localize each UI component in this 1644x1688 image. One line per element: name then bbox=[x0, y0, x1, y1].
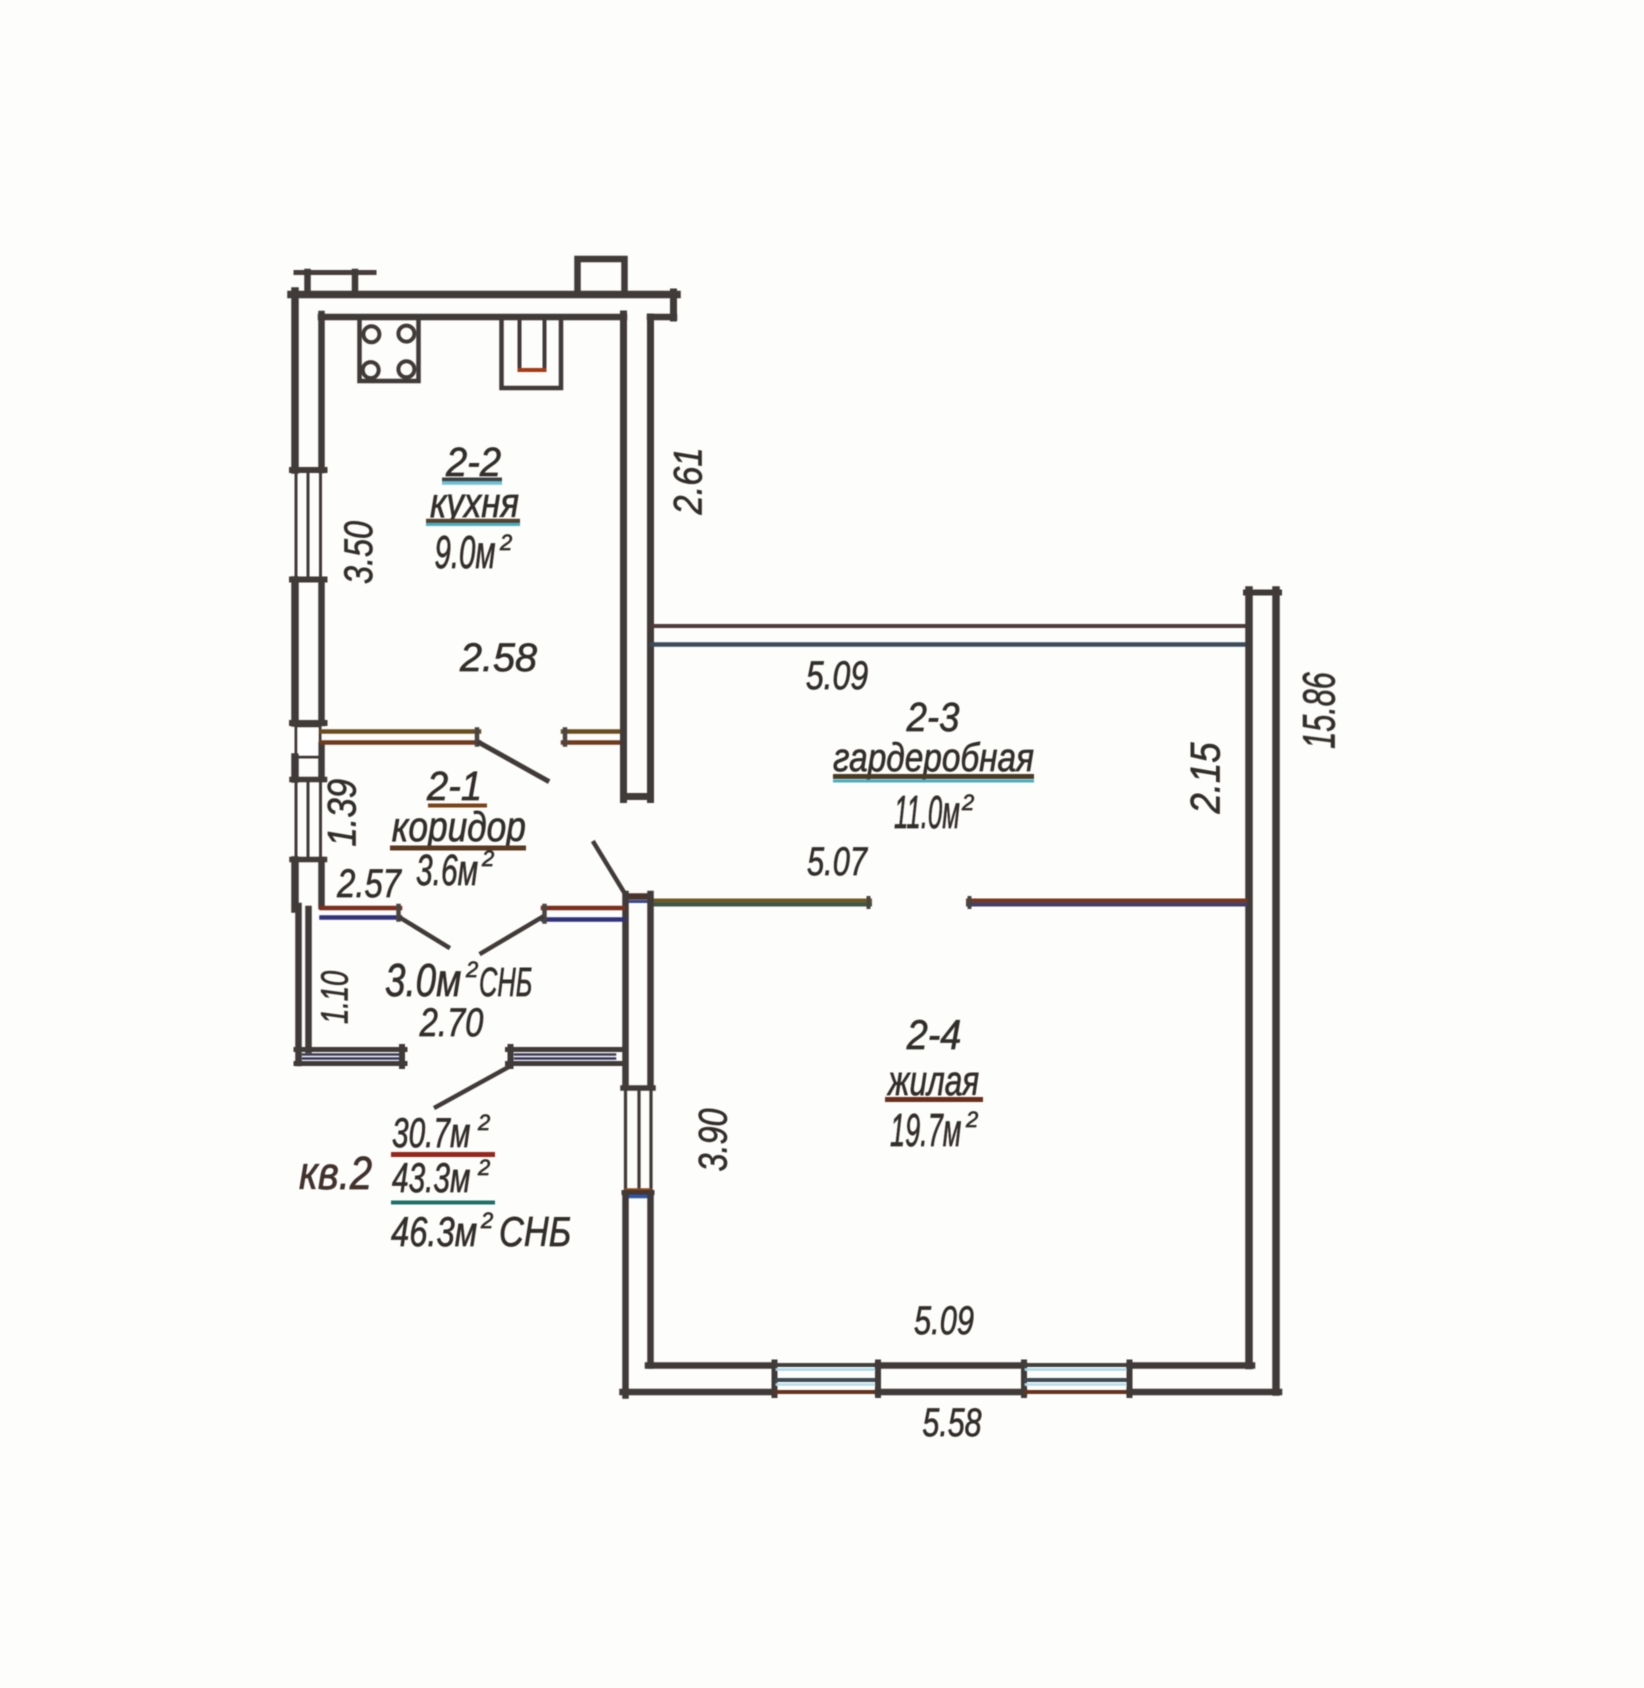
wire: living room window west top cap bbox=[623, 1085, 653, 1091]
svg-text:15.86: 15.86 bbox=[1295, 672, 1345, 749]
wire: living room left wall inner line upper bbox=[647, 894, 654, 1086]
wire: living room left wall outer line upper bbox=[622, 894, 629, 1086]
svg-text:3.0м: 3.0м bbox=[385, 954, 461, 1006]
wire: left wall outer line corridor upper bbox=[291, 757, 299, 779]
svg-text:1.10: 1.10 bbox=[314, 970, 356, 1024]
node: bottom window 2 bbox=[1021, 1363, 1027, 1396]
node: vent tick 1 bbox=[304, 272, 311, 292]
wire: corridor-SNB partition left piece upper line bbox=[322, 906, 401, 911]
svg-text:СНБ: СНБ bbox=[499, 1209, 571, 1256]
svg-text:2: 2 bbox=[481, 846, 494, 871]
svg-text:2: 2 bbox=[477, 1110, 490, 1135]
wire: corridor-SNB partition left piece end cap bbox=[396, 906, 401, 920]
wire: living room left wall top cap bbox=[626, 893, 650, 900]
wire: living room bottom wall inner line segment B bbox=[1130, 1362, 1253, 1369]
wire: left wall cap below window B bbox=[292, 857, 325, 863]
node: window west in living room wall bbox=[624, 1090, 627, 1189]
wire: kitchen right wall right line bbox=[647, 317, 654, 800]
node: window A in kitchen left wall bbox=[295, 473, 298, 577]
wire: wardrobe top partition lower line bbox=[652, 642, 1245, 647]
svg-text:2: 2 bbox=[965, 1107, 978, 1132]
svg-text:5.07: 5.07 bbox=[807, 839, 868, 884]
wire: corridor top partition lower line bbox=[322, 740, 480, 745]
wire: kitchen top wall inner line left part bbox=[321, 314, 624, 321]
svg-text:2-3: 2-3 bbox=[906, 695, 960, 740]
wire: corridor-SNB partition right piece left cap bbox=[542, 906, 547, 922]
wire: left wall cap above window A bbox=[292, 467, 325, 473]
svg-text:2.58: 2.58 bbox=[459, 636, 537, 680]
svg-text:19.7м: 19.7м bbox=[890, 1106, 961, 1157]
svg-text:43.3м: 43.3м bbox=[392, 1154, 470, 1201]
wire: kitchen wall stub left cap bbox=[563, 730, 568, 745]
svg-text:1.39: 1.39 bbox=[319, 779, 364, 847]
wire: right outer wall top cap bbox=[1246, 590, 1279, 596]
wire: kitchen top wall outer line bbox=[291, 291, 677, 299]
wire: partition 5.07 right segment lower line bbox=[968, 903, 1245, 907]
wire: living room bottom wall outer line segment A bbox=[623, 1389, 774, 1396]
wire: partition 5.07 left segment lower line bbox=[653, 903, 870, 907]
wire: right outer wall outer line bbox=[1272, 590, 1280, 1392]
node: vent symbol top-left horizontal bar bbox=[296, 270, 374, 275]
wire: right outer wall inner line bbox=[1245, 590, 1253, 1366]
wire: corridor-SNB partition left piece lower line bbox=[322, 915, 401, 920]
wire: kitchen wall stub lower line bbox=[563, 740, 623, 745]
wire: SNB room left wall outer line bbox=[295, 906, 302, 1063]
wire: partition 5.07 left segment upper line bbox=[653, 899, 870, 903]
svg-text:СНБ: СНБ bbox=[479, 960, 532, 1006]
wire: corridor-SNB partition right piece lower line bbox=[543, 917, 623, 922]
svg-text:46.3м: 46.3м bbox=[391, 1208, 477, 1255]
svg-text:3.50: 3.50 bbox=[336, 521, 381, 584]
wire: corridor top partition right cap bbox=[475, 730, 480, 745]
wire: living room bottom wall pier inner line bbox=[878, 1362, 1024, 1369]
wire: kitchen top wall inner line right stub bbox=[650, 314, 674, 321]
svg-text:2.15: 2.15 bbox=[1182, 742, 1229, 814]
wire: living room bottom wall pier outer line bbox=[878, 1389, 1024, 1396]
node: stove symbol in kitchen bbox=[360, 320, 419, 381]
wire: left wall inner line upper segment bbox=[318, 314, 325, 470]
wire: living room bottom wall outer line segment B bbox=[1130, 1389, 1280, 1396]
wire: wardrobe top partition upper line bbox=[652, 624, 1245, 628]
svg-text:2: 2 bbox=[961, 790, 974, 815]
wire: partition 5.07 left segment end cap bbox=[867, 898, 871, 907]
svg-text:11.0м: 11.0м bbox=[894, 786, 960, 838]
svg-text:5.09: 5.09 bbox=[806, 653, 868, 698]
wire: left wall cap above window B bbox=[292, 777, 325, 783]
wire: living room window west bottom cap bbox=[626, 1188, 650, 1191]
door: apartment entrance door leaf bbox=[436, 1067, 509, 1107]
svg-text:2.61: 2.61 bbox=[665, 448, 710, 516]
svg-text:3.6м: 3.6м bbox=[416, 845, 478, 894]
wire: left wall outer line corridor lower bbox=[291, 860, 299, 909]
svg-text:коридор: коридор bbox=[392, 804, 526, 851]
wire: living room left wall inner line lower bbox=[647, 1194, 654, 1366]
svg-text:2-4: 2-4 bbox=[906, 1012, 962, 1058]
door: corridor to wardrobe door leaf bbox=[594, 843, 625, 893]
node: vent tick 2 bbox=[352, 272, 359, 292]
svg-text:2-1: 2-1 bbox=[426, 764, 482, 810]
node: sink symbol in kitchen bbox=[502, 320, 562, 388]
node: junction white box left wall bbox=[296, 726, 320, 757]
node: bottom window 1 bbox=[772, 1363, 778, 1396]
wire: kitchen top wall right end cap bbox=[670, 292, 677, 318]
svg-text:2.70: 2.70 bbox=[419, 1000, 484, 1045]
wire: living room left wall outer line lower bbox=[622, 1194, 629, 1396]
wire: left wall inner line corridor upper bbox=[318, 745, 325, 779]
svg-text:жилая: жилая bbox=[886, 1057, 979, 1105]
node: window B in corridor left wall bbox=[295, 781, 298, 858]
wire: kitchen wall stub upper line bbox=[563, 729, 623, 734]
wire: kitchen right wall left line bbox=[620, 314, 627, 800]
wire: corridor top partition upper line bbox=[322, 729, 480, 734]
wire: partition 5.07 right segment end cap bbox=[968, 898, 972, 907]
svg-text:гардеробная: гардеробная bbox=[833, 735, 1034, 780]
svg-text:2: 2 bbox=[480, 1208, 493, 1233]
svg-text:2.57: 2.57 bbox=[336, 861, 402, 906]
svg-text:30.7м: 30.7м bbox=[392, 1109, 470, 1156]
wire: left wall inner line mid segment bbox=[318, 580, 325, 723]
wire: left wall cap below window A bbox=[292, 577, 325, 583]
svg-text:кв.2: кв.2 bbox=[299, 1148, 372, 1199]
wire: partition 5.07 right segment upper line bbox=[968, 899, 1245, 903]
svg-text:2: 2 bbox=[499, 530, 512, 555]
door: SNB door leaf right bbox=[482, 918, 542, 954]
wire: living room bottom wall inner line segment A bbox=[648, 1362, 774, 1369]
wire: left wall inner line corridor lower bbox=[318, 860, 325, 906]
wire: SNB room left wall inner line bbox=[305, 909, 312, 1050]
svg-text:2: 2 bbox=[477, 1155, 490, 1180]
node: entrance sidelight right part bbox=[508, 1047, 623, 1052]
wire: left wall outer line upper segment bbox=[291, 291, 299, 470]
wire: corridor-SNB partition right piece upper line bbox=[543, 906, 623, 911]
door: SNB door leaf left bbox=[402, 919, 449, 948]
svg-text:5.09: 5.09 bbox=[914, 1298, 974, 1343]
wire: left wall outer line mid segment bbox=[291, 580, 299, 723]
door: kitchen door leaf bbox=[480, 743, 547, 781]
node: chimney shaft box on top wall bbox=[578, 259, 625, 292]
wire: kitchen right wall bottom cap bbox=[624, 793, 650, 800]
svg-text:2: 2 bbox=[465, 957, 478, 982]
svg-text:5.58: 5.58 bbox=[922, 1400, 981, 1445]
node: SNB bottom window left part bbox=[296, 1047, 405, 1052]
svg-text:9.0м: 9.0м bbox=[435, 528, 496, 579]
wire: left wall cap at corridor junction bbox=[292, 720, 325, 726]
svg-text:3.90: 3.90 bbox=[690, 1108, 735, 1171]
